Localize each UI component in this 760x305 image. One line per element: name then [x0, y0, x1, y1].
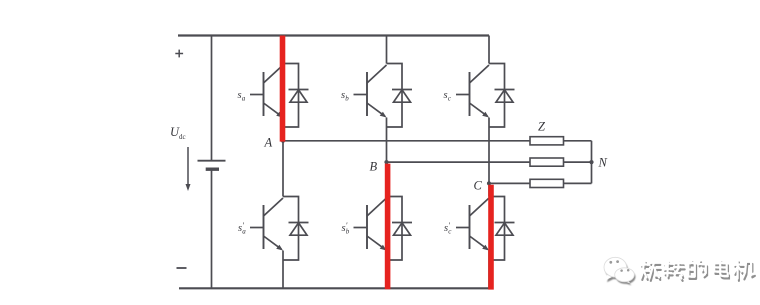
svg-text:N: N [598, 156, 608, 170]
svg-text:B: B [370, 160, 378, 174]
svg-text:C: C [474, 179, 483, 193]
svg-text:Z: Z [538, 120, 546, 134]
svg-text:A: A [264, 136, 273, 150]
